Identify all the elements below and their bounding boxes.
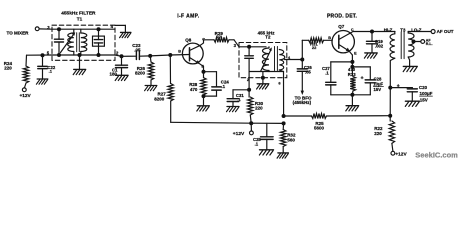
svg-text:+12V: +12V: [233, 131, 245, 137]
svg-text:TO MIXER: TO MIXER: [7, 30, 30, 35]
svg-text:T1: T1: [77, 17, 83, 22]
svg-text:HI-Z: HI-Z: [384, 27, 393, 32]
svg-text:.1: .1: [255, 142, 259, 147]
svg-text:220: 220: [4, 65, 12, 70]
svg-text:+: +: [361, 76, 364, 82]
svg-text:+12V: +12V: [20, 93, 32, 99]
svg-text:8200: 8200: [135, 71, 146, 76]
svg-text:100µF: 100µF: [420, 91, 433, 96]
svg-text:PROD. DET.: PROD. DET.: [327, 14, 357, 20]
svg-text:455kHz FILTER: 455kHz FILTER: [61, 10, 96, 16]
svg-text:B: B: [328, 36, 331, 40]
svg-text:E: E: [354, 51, 357, 55]
svg-text:C20: C20: [419, 85, 428, 90]
svg-text:.05: .05: [305, 69, 312, 74]
svg-text:22: 22: [217, 34, 222, 39]
svg-text:22: 22: [312, 45, 317, 50]
svg-text:Q7: Q7: [338, 24, 345, 29]
svg-text:+: +: [397, 83, 400, 89]
svg-text:15V: 15V: [374, 87, 382, 92]
svg-text:T2: T2: [265, 35, 271, 40]
svg-text:R33: R33: [348, 72, 356, 77]
svg-text:5600: 5600: [314, 126, 325, 131]
svg-text:I-F AMP.: I-F AMP.: [177, 14, 200, 20]
svg-text:Q8: Q8: [185, 38, 192, 43]
svg-text:560: 560: [287, 138, 295, 143]
svg-text:220: 220: [255, 106, 263, 111]
svg-text:+12V: +12V: [395, 151, 407, 157]
svg-text:.1: .1: [221, 84, 225, 89]
svg-text:(455kHz): (455kHz): [293, 100, 312, 105]
svg-text:B: B: [178, 49, 181, 53]
svg-text:470: 470: [190, 87, 198, 92]
svg-text:180: 180: [110, 72, 118, 77]
svg-text:8200: 8200: [154, 97, 165, 102]
svg-text:220: 220: [374, 131, 382, 136]
svg-text:R.L.: R.L.: [426, 42, 433, 46]
svg-text:SeekIC.com: SeekIC.com: [415, 151, 458, 160]
svg-text:.05: .05: [134, 47, 141, 52]
svg-text:15V: 15V: [420, 98, 428, 103]
svg-text:AF OUT: AF OUT: [437, 29, 454, 34]
svg-text:.002: .002: [375, 44, 384, 49]
